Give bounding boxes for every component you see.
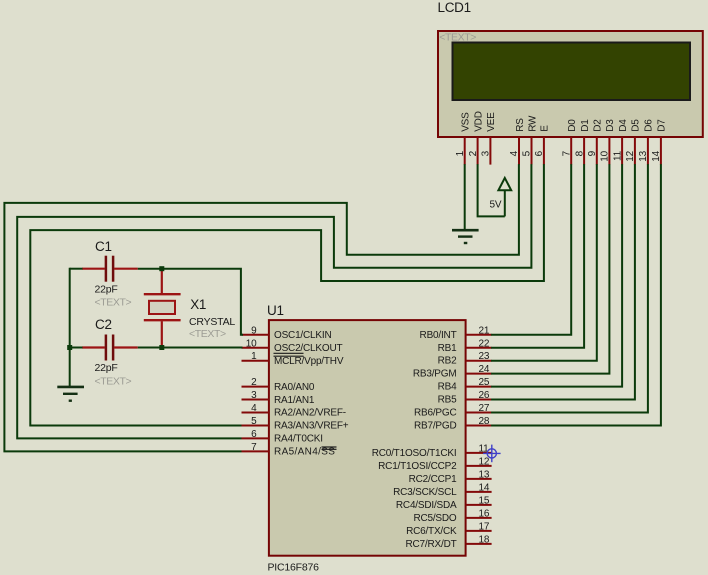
- svg-text:5: 5: [522, 150, 533, 156]
- U1 pin 14 stub (right): [466, 491, 492, 493]
- svg-text:24: 24: [479, 364, 490, 375]
- LCD display LCD1: [438, 0, 703, 165]
- svg-text:D3: D3: [605, 119, 616, 132]
- power symbol 5V: [490, 178, 512, 217]
- U1 pin 1 stub (left): [242, 360, 269, 362]
- LCD1 pin 12 (D5) stub: [634, 137, 636, 165]
- U1 pin 5 stub (left): [242, 424, 269, 426]
- U1 pin 18 stub (right): [466, 543, 492, 545]
- svg-text:15: 15: [479, 495, 490, 506]
- svg-text:D7: D7: [657, 119, 668, 132]
- wire OSC1 net: C1 right lead to U1 pin 9: [138, 269, 243, 335]
- svg-text:RC2/CCP1: RC2/CCP1: [409, 474, 457, 485]
- X1 body: [149, 301, 175, 314]
- C2 right lead: [114, 346, 138, 348]
- svg-text:<TEXT>: <TEXT>: [95, 297, 132, 309]
- svg-text:RA5/AN4/SS: RA5/AN4/SS: [274, 447, 335, 458]
- svg-text:E: E: [540, 125, 551, 132]
- U1 pin 9 stub (left): [242, 334, 269, 336]
- svg-text:3: 3: [251, 390, 257, 401]
- U1 pin 12 stub (right): [466, 465, 492, 467]
- svg-text:MCLR/Vpp/THV: MCLR/Vpp/THV: [274, 356, 344, 367]
- U1 pin 16 stub (right): [466, 517, 492, 519]
- svg-text:4: 4: [251, 403, 257, 414]
- svg-text:2: 2: [251, 377, 257, 388]
- LCD1 pin 6 (E) stub: [543, 137, 545, 165]
- svg-text:RA3/AN3/VREF+: RA3/AN3/VREF+: [274, 421, 349, 432]
- wire VSS net: LCD1 pin 1 to ground: [464, 164, 466, 229]
- C1 left plate: [105, 256, 108, 282]
- svg-text:RB7/PGD: RB7/PGD: [414, 420, 457, 431]
- LCD1 pin 9 (D2) stub: [596, 137, 598, 165]
- C1 left lead: [82, 268, 105, 270]
- svg-text:8: 8: [574, 150, 585, 156]
- U1 pin 11 stub (right): [466, 452, 492, 454]
- wire RW net: LCD1 pin 5 to U1 RA4 (pin 6): [17, 164, 531, 438]
- LCD1 pin 10 (D3) stub: [608, 137, 610, 165]
- svg-text:12: 12: [479, 456, 490, 467]
- U1 MCLR overline: [274, 355, 304, 357]
- U1 pin 23 stub (right): [466, 360, 492, 362]
- C1 right plate: [112, 256, 115, 282]
- wire D4 net: LCD1 pin 11 to U1 RB4 (pin 25): [491, 164, 622, 387]
- U1 pin 15 stub (right): [466, 504, 492, 506]
- LCD1 screen: [453, 43, 691, 101]
- wire VDD net: LCD1 pin 2 to 5V power: [478, 164, 505, 216]
- LCD1 pin 4 (RS) stub: [518, 137, 520, 165]
- svg-text:2: 2: [468, 150, 479, 156]
- svg-text:LCD1: LCD1: [438, 0, 471, 15]
- wire E net: LCD1 pin 6 to U1 RA3 (pin 5): [30, 164, 544, 425]
- svg-text:<TEXT>: <TEXT>: [189, 328, 226, 340]
- svg-text:RA2/AN2/VREF-: RA2/AN2/VREF-: [274, 408, 346, 419]
- svg-text:14: 14: [651, 150, 662, 161]
- svg-text:6: 6: [534, 150, 545, 156]
- wire D2 net: LCD1 pin 9 to U1 RB2 (pin 23): [491, 164, 597, 361]
- svg-text:5: 5: [251, 416, 257, 427]
- svg-text:14: 14: [479, 482, 490, 493]
- svg-text:RA4/T0CKI: RA4/T0CKI: [274, 434, 323, 445]
- svg-text:VSS: VSS: [461, 112, 472, 132]
- wire D5 net: LCD1 pin 12 to U1 RB5 (pin 26): [491, 164, 635, 399]
- svg-text:RB3/PGM: RB3/PGM: [413, 369, 457, 380]
- U1 pin 21 stub (right): [466, 334, 492, 336]
- svg-text:RC5/SDO: RC5/SDO: [413, 513, 456, 524]
- U1 RA5 SS overline upper: [322, 446, 337, 448]
- svg-text:7: 7: [251, 442, 257, 453]
- U1 pin 26 stub (right): [466, 399, 492, 401]
- svg-text:RC6/TX/CK: RC6/TX/CK: [406, 526, 457, 537]
- svg-text:9: 9: [587, 150, 598, 156]
- wire C2 left lead to left rail: [70, 347, 83, 349]
- svg-text:RS: RS: [515, 118, 526, 132]
- svg-text:X1: X1: [190, 297, 206, 312]
- svg-text:22: 22: [479, 338, 490, 349]
- svg-text:VDD: VDD: [473, 111, 484, 132]
- svg-text:D2: D2: [593, 119, 604, 132]
- svg-text:22pF: 22pF: [95, 284, 118, 296]
- U1 pin 28 stub (right): [466, 424, 492, 426]
- svg-text:16: 16: [479, 508, 490, 519]
- svg-text:RC7/RX/DT: RC7/RX/DT: [406, 539, 457, 550]
- svg-text:18: 18: [479, 534, 490, 545]
- U1 pin 6 stub (left): [242, 437, 269, 439]
- wire D0 net: LCD1 pin 7 to U1 RB0 (pin 21): [491, 164, 571, 335]
- svg-text:RB6/PGC: RB6/PGC: [414, 408, 457, 419]
- U1 body: [269, 320, 466, 556]
- wire D7 net: LCD1 pin 14 to U1 RB7 (pin 28): [491, 164, 661, 425]
- LCD1 pin 2 (VDD) stub: [477, 137, 479, 165]
- U1 pin 4 stub (left): [242, 412, 269, 414]
- svg-text:13: 13: [638, 150, 649, 161]
- svg-text:10: 10: [600, 150, 611, 161]
- svg-text:CRYSTAL: CRYSTAL: [189, 316, 235, 328]
- C2 left lead: [82, 346, 105, 348]
- svg-text:<TEXT>: <TEXT>: [95, 376, 132, 388]
- U1 pin 22 stub (right): [466, 347, 492, 349]
- svg-text:25: 25: [479, 377, 490, 388]
- LCD1 pin 13 (D6) stub: [647, 137, 649, 165]
- ground symbol below LCD1: [452, 230, 479, 243]
- svg-text:U1: U1: [267, 303, 284, 318]
- U1 pin 13 stub (right): [466, 478, 492, 480]
- wire RS net: LCD1 pin 4 to U1 RA5 (pin 7): [4, 164, 519, 451]
- svg-text:4: 4: [509, 150, 520, 156]
- svg-text:5V: 5V: [490, 200, 502, 211]
- LCD1 body: [438, 31, 703, 137]
- C2 left plate: [105, 335, 108, 361]
- capacitor C2: [82, 317, 138, 387]
- svg-text:RC0/T1OSO/T1CKI: RC0/T1OSO/T1CKI: [372, 448, 457, 459]
- svg-text:C2: C2: [95, 317, 112, 332]
- svg-text:9: 9: [251, 325, 257, 336]
- crystal X1: [144, 271, 236, 346]
- svg-text:D4: D4: [618, 119, 629, 132]
- svg-text:RC3/SCK/SCL: RC3/SCK/SCL: [393, 487, 457, 498]
- U1 OSC2 underline: [274, 352, 304, 354]
- svg-text:RC1/T1OSI/CCP2: RC1/T1OSI/CCP2: [378, 461, 457, 472]
- X1 top lead: [161, 271, 163, 294]
- LCD1 pin 14 (D7) stub: [660, 137, 662, 165]
- junction C2 left / ground rail: [67, 345, 72, 350]
- wire D3 net: LCD1 pin 10 to U1 RB3 (pin 24): [491, 164, 609, 374]
- svg-text:1: 1: [251, 351, 257, 362]
- wire OSC2 net: C2 right lead to U1 pin 10: [138, 347, 243, 349]
- U1 RA5 SS overline lower: [322, 448, 337, 450]
- wire D6 net: LCD1 pin 13 to U1 RB6 (pin 27): [491, 164, 648, 412]
- svg-text:RB5: RB5: [438, 395, 457, 406]
- LCD1 pin 5 (RW) stub: [531, 137, 533, 165]
- blue origin cursor at U1 pin 11: [483, 445, 501, 463]
- U1 pin 17 stub (right): [466, 530, 492, 532]
- junction C1 / X1 top: [159, 266, 164, 271]
- LCD1 pin 8 (D1) stub: [583, 137, 585, 165]
- capacitor C1: [82, 239, 138, 309]
- svg-text:21: 21: [479, 325, 490, 336]
- svg-text:OSC2/CLKOUT: OSC2/CLKOUT: [274, 343, 342, 354]
- svg-text:D6: D6: [644, 119, 655, 132]
- svg-text:OSC1/CLKIN: OSC1/CLKIN: [274, 330, 331, 341]
- svg-text:12: 12: [625, 150, 636, 161]
- svg-text:VEE: VEE: [486, 112, 497, 132]
- svg-text:26: 26: [479, 390, 490, 401]
- svg-text:C1: C1: [95, 239, 112, 254]
- svg-text:RB0/INT: RB0/INT: [420, 330, 457, 341]
- wire D1 net: LCD1 pin 8 to U1 RB1 (pin 22): [491, 164, 584, 348]
- svg-text:17: 17: [479, 521, 490, 532]
- ground symbol below C2: [57, 387, 84, 401]
- svg-text:22pF: 22pF: [95, 362, 118, 374]
- svg-text:28: 28: [479, 416, 490, 427]
- svg-text:6: 6: [251, 429, 257, 440]
- U1 pin 2 stub (left): [242, 386, 269, 388]
- C1 right lead: [114, 268, 138, 270]
- U1 pin 27 stub (right): [466, 412, 492, 414]
- microcontroller U1 PIC16F876: [242, 303, 492, 573]
- svg-text:D1: D1: [580, 119, 591, 132]
- svg-text:10: 10: [246, 338, 257, 349]
- U1 pin 24 stub (right): [466, 373, 492, 375]
- svg-text:RA0/AN0: RA0/AN0: [274, 382, 315, 393]
- svg-text:1: 1: [455, 150, 466, 156]
- wire left rail: C1 to C2 to ground: [69, 268, 71, 388]
- LCD1 pin 11 (D4) stub: [621, 137, 623, 165]
- LCD1 pin 1 (VSS) stub: [464, 137, 466, 165]
- X1 bottom lead: [161, 321, 163, 345]
- svg-text:RB2: RB2: [438, 356, 457, 367]
- C2 right plate: [112, 335, 115, 361]
- LCD1 pin 7 (D0) stub: [570, 137, 572, 165]
- svg-text:D5: D5: [631, 119, 642, 132]
- svg-text:RB4: RB4: [438, 382, 457, 393]
- X1 bottom plate: [144, 319, 181, 321]
- U1 pin 3 stub (left): [242, 399, 269, 401]
- svg-text:PIC16F876: PIC16F876: [268, 562, 320, 574]
- svg-text:23: 23: [479, 351, 490, 362]
- U1 pin 7 stub (left): [242, 450, 269, 452]
- svg-text:27: 27: [479, 403, 490, 414]
- svg-text:RC4/SDI/SDA: RC4/SDI/SDA: [396, 500, 457, 511]
- svg-text:D0: D0: [567, 119, 578, 132]
- svg-text:11: 11: [612, 150, 623, 161]
- svg-text:3: 3: [481, 150, 492, 156]
- junction C2 / X1 bottom: [159, 345, 164, 350]
- U1 pin 25 stub (right): [466, 386, 492, 388]
- svg-text:RA1/AN1: RA1/AN1: [274, 395, 315, 406]
- svg-text:13: 13: [479, 469, 490, 480]
- U1 pin 10 stub (left): [242, 347, 269, 349]
- X1 top plate: [144, 293, 181, 295]
- wire C1 left lead to left rail: [70, 268, 83, 270]
- svg-text:RW: RW: [527, 115, 538, 132]
- svg-text:7: 7: [561, 150, 572, 156]
- svg-text:RB1: RB1: [438, 343, 457, 354]
- LCD1 pin 3 (VEE) stub: [489, 137, 491, 165]
